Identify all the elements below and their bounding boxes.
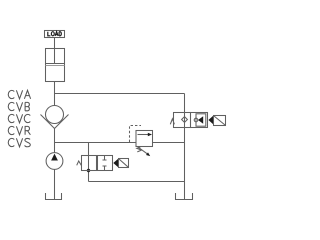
label CVR bbox=[8, 126, 30, 135]
upper valve spring bbox=[170, 119, 174, 125]
check valve seat V bbox=[41, 115, 69, 129]
wire drop to lower valve bbox=[88, 143, 90, 182]
wire bus vertical bbox=[184, 94, 186, 200]
wire top branch to right bus bbox=[55, 93, 185, 95]
tank left bbox=[46, 193, 62, 200]
cylinder body bbox=[46, 49, 65, 82]
pump triangle bbox=[51, 154, 58, 161]
pump circle bbox=[46, 153, 63, 170]
relief valve inner arrowhead bbox=[148, 133, 152, 136]
relief valve spring bbox=[137, 147, 142, 152]
tank right bbox=[176, 193, 193, 200]
LOAD box bbox=[45, 31, 65, 38]
wire cylinder to check valve bbox=[54, 82, 56, 106]
relief valve inner arrow bbox=[138, 134, 149, 136]
upper valve left box bbox=[174, 113, 191, 128]
label CVC bbox=[8, 114, 30, 123]
lower valve spring bbox=[77, 161, 82, 165]
LOAD text bbox=[48, 32, 62, 36]
wire check valve to pump bbox=[54, 129, 56, 153]
upper valve seat triangle bbox=[198, 116, 203, 124]
lower valve right box bbox=[98, 156, 113, 171]
lower valve solenoid diagonal bbox=[119, 159, 128, 167]
cylinder piston line bbox=[46, 63, 65, 65]
relief valve adjust arrowhead bbox=[146, 152, 150, 156]
lower valve solenoid box bbox=[119, 159, 129, 168]
upper valve solenoid diagonal bbox=[214, 116, 225, 125]
relief valve box bbox=[136, 131, 153, 147]
upper valve check diamond bbox=[182, 117, 188, 123]
relief valve adjust arrow bbox=[138, 147, 147, 154]
check valve circle bbox=[46, 106, 64, 124]
lower valve left box bbox=[82, 156, 97, 171]
label CVA bbox=[8, 90, 30, 99]
relief valve pilot dashed line bbox=[130, 126, 142, 143]
upper valve right box bbox=[191, 113, 208, 128]
wire rod from LOAD to piston bbox=[54, 38, 56, 64]
wire mid branch to relief valve bbox=[55, 142, 137, 144]
upper valve right box inner rect bbox=[196, 114, 206, 126]
upper valve solenoid box bbox=[214, 116, 226, 126]
upper valve ball bbox=[194, 118, 198, 122]
label CVB bbox=[8, 102, 29, 111]
wire relief to bus bbox=[153, 142, 185, 144]
lower valve solenoid triangle bbox=[113, 159, 118, 168]
label CVS bbox=[8, 138, 30, 147]
wire pump to tank bbox=[54, 169, 56, 199]
cylinder piston second line bbox=[46, 65, 65, 67]
junction dot bbox=[87, 169, 90, 172]
wire bottom run to bus bbox=[89, 181, 185, 183]
upper valve solenoid triangle bbox=[208, 116, 213, 125]
lower valve blocked port top bbox=[103, 156, 107, 161]
lower valve blocked port bottom bbox=[103, 166, 107, 171]
